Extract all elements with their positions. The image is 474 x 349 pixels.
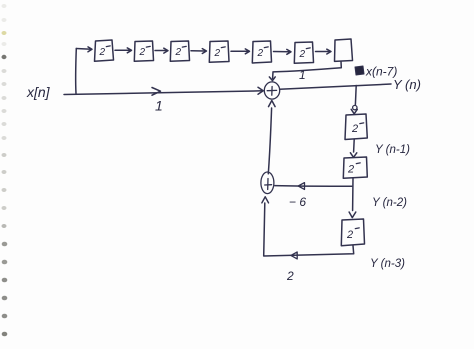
arrowhead left on feedback wire bbox=[291, 252, 297, 259]
svg-text:2: 2 bbox=[346, 229, 353, 241]
node blob before x(n-7) bbox=[355, 66, 364, 75]
arrowhead into DB bbox=[350, 153, 356, 158]
delay block DC bbox=[341, 219, 364, 246]
arrowhead up into S1 bbox=[269, 101, 276, 107]
arrowhead into DC bbox=[349, 212, 356, 218]
svg-text:Y (n-2): Y (n-2) bbox=[372, 197, 407, 209]
delay block D4 bbox=[209, 41, 229, 62]
wire main input line x(n) to summer S1 bbox=[64, 91, 263, 95]
svg-text:x[n]: x[n] bbox=[26, 84, 51, 100]
svg-text:2: 2 bbox=[351, 123, 358, 135]
arrowhead up into S2 bbox=[262, 197, 269, 203]
svg-text:2: 2 bbox=[299, 49, 306, 60]
delay block D5 bbox=[252, 41, 271, 63]
arrowhead into D7 bbox=[327, 49, 331, 54]
wire DA to DB bbox=[353, 140, 356, 153]
svg-text:2: 2 bbox=[286, 269, 294, 283]
svg-text:Y (n-1): Y (n-1) bbox=[375, 144, 410, 156]
delay block DA bbox=[345, 114, 367, 140]
arrowhead into D1 bbox=[88, 47, 92, 52]
svg-text:1: 1 bbox=[299, 68, 306, 82]
arrowhead into D6 bbox=[287, 49, 291, 54]
wire tap to summer S2 with gain -6 bbox=[275, 185, 352, 188]
wire D1 to D2 bbox=[115, 49, 131, 51]
wire D3 to D4 bbox=[191, 50, 205, 52]
delay block D2 bbox=[134, 41, 153, 61]
wire D7 down and left to summer S1 bbox=[273, 61, 342, 78]
wire DC down and feedback to S2 bbox=[264, 203, 354, 256]
svg-text:2: 2 bbox=[139, 47, 146, 58]
summer S2 bbox=[261, 172, 274, 194]
delay block D6 bbox=[294, 42, 313, 63]
arrowhead into D2 bbox=[127, 48, 131, 53]
loop arrowhead into DA bbox=[353, 105, 357, 109]
svg-text:2: 2 bbox=[257, 48, 264, 59]
arrowhead into S1 from left bbox=[258, 87, 263, 94]
wire branch vertical up from main line bbox=[75, 49, 78, 94]
wire D6 to D7 bbox=[316, 51, 330, 53]
arrowhead left on -6 wire bbox=[298, 183, 304, 190]
delay block D7 empty bbox=[335, 39, 353, 61]
spiral binding holes left edge bbox=[2, 4, 8, 336]
wire branch horizontal into D1 bbox=[76, 48, 91, 51]
arrowhead into D3 bbox=[164, 48, 168, 53]
wire drop from output line to DA bbox=[354, 86, 357, 105]
svg-text:2: 2 bbox=[214, 48, 221, 59]
summer S1 bbox=[264, 82, 279, 99]
wire D2 to D3 bbox=[155, 50, 167, 52]
arrowhead into D4 bbox=[202, 49, 206, 54]
svg-text:Y (n): Y (n) bbox=[393, 77, 421, 92]
delay block D1 bbox=[95, 40, 114, 61]
svg-text:2: 2 bbox=[347, 164, 354, 176]
svg-text:− 6: − 6 bbox=[289, 195, 306, 209]
svg-text:Y (n-3): Y (n-3) bbox=[370, 258, 405, 270]
arrowhead down into S1 bbox=[269, 77, 275, 81]
wire D5 to D6 bbox=[274, 51, 290, 53]
wire S2 output up to S1 bbox=[268, 108, 271, 174]
wire D4 to D5 bbox=[231, 50, 248, 52]
svg-text:2: 2 bbox=[175, 47, 182, 58]
arrowhead on main line bbox=[152, 88, 161, 96]
wire S1 output to y(n) bbox=[280, 84, 391, 89]
delay block DB bbox=[343, 157, 367, 178]
arrowhead into D5 bbox=[245, 49, 249, 54]
svg-text:2: 2 bbox=[99, 47, 106, 58]
delay block D3 bbox=[170, 41, 189, 61]
svg-text:1: 1 bbox=[155, 98, 163, 114]
wire DB down to DC bbox=[352, 178, 354, 210]
